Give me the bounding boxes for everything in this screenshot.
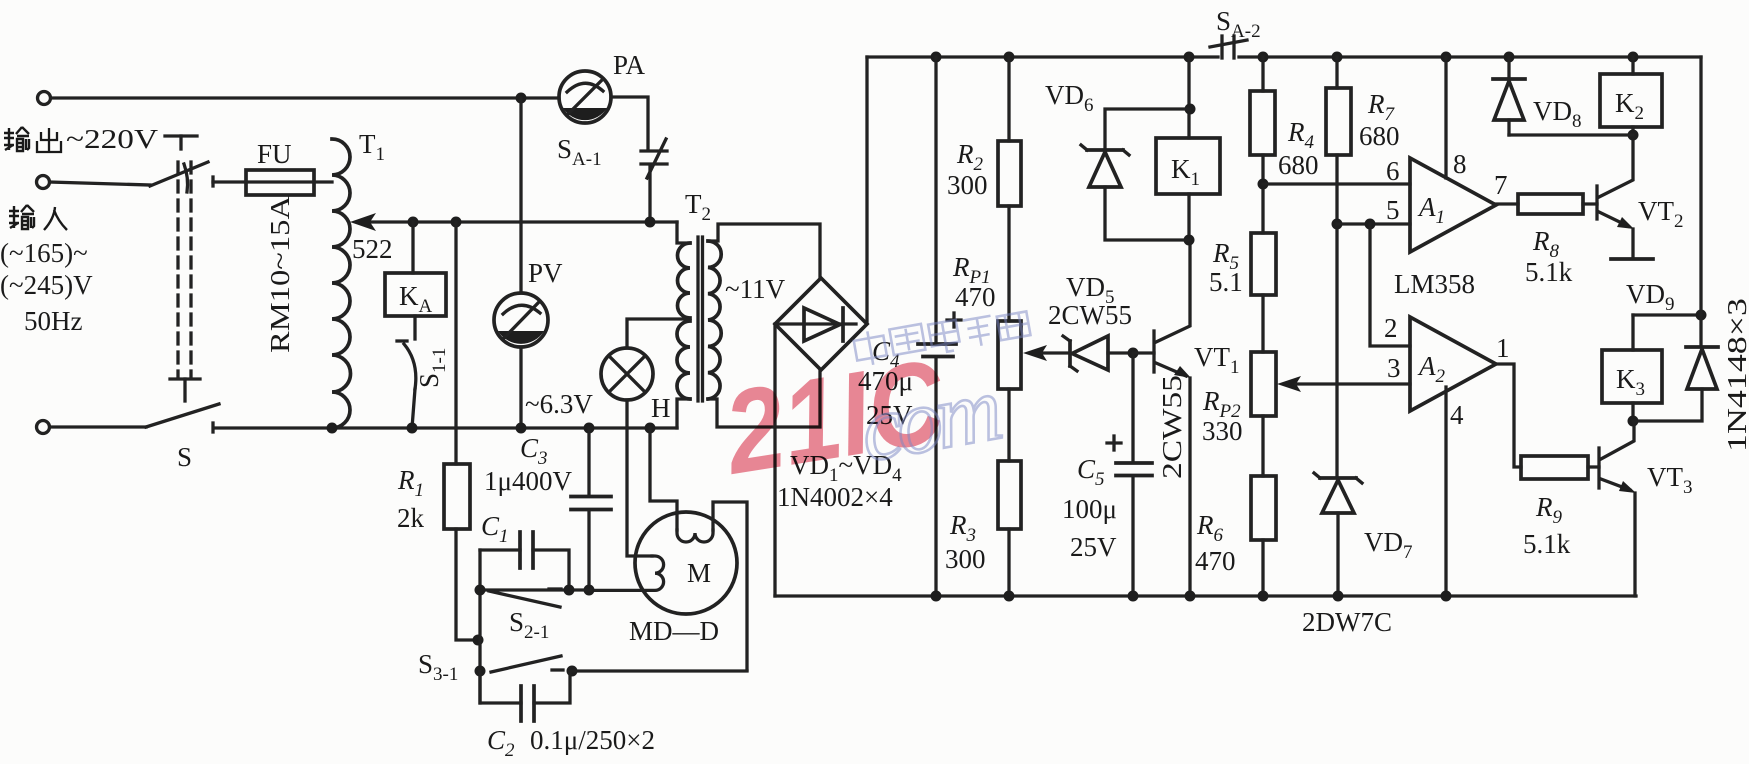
svg-text:5.1: 5.1	[1209, 267, 1243, 297]
diode VD8 (parallel with K2)	[1504, 52, 1515, 63]
wire T2 secondary bottom to bridge	[708, 371, 820, 427]
wire right rail from top bus	[1699, 57, 1702, 346]
terminal lower	[37, 421, 50, 434]
svg-text:300: 300	[945, 544, 986, 574]
wire input to switch	[50, 182, 150, 185]
node R1 to S-chain junction	[473, 635, 484, 646]
wire to A1 pin 5	[1337, 222, 1410, 225]
svg-text:50Hz: 50Hz	[24, 306, 82, 336]
relay coil K1	[1184, 52, 1195, 63]
potentiometer RP1	[998, 321, 1021, 389]
wire lower input to switch	[50, 425, 146, 428]
switch SA-1 contact	[641, 149, 667, 152]
op-amp A2	[1410, 317, 1496, 411]
wire lamp down to motor winding	[627, 400, 652, 556]
svg-text:5.1k: 5.1k	[1523, 529, 1571, 559]
zener diode VD5	[1068, 341, 1072, 366]
wire DC top bus	[867, 55, 1218, 58]
switch S upper pole	[150, 162, 208, 186]
potentiometer RP2	[1251, 352, 1276, 416]
svg-text:330: 330	[1202, 416, 1243, 446]
capacitor C4	[931, 52, 942, 63]
wire S2-1 node to motor	[480, 588, 591, 591]
svg-text:5: 5	[1386, 195, 1400, 225]
svg-text:MD—D: MD—D	[629, 616, 719, 646]
wire bus to motor top winding	[650, 428, 677, 530]
svg-text:RM10~15A: RM10~15A	[265, 195, 295, 353]
diode 1N4148 (parallel with K3)	[1686, 345, 1718, 349]
wire tap bus with arrow into T1	[370, 220, 677, 223]
wire switch to fuse	[213, 180, 246, 183]
switch S3-1	[491, 656, 561, 672]
switch S gang dashed link	[176, 162, 179, 377]
transformer T2 core	[696, 237, 699, 401]
ammeter PA	[559, 71, 611, 123]
svg-text:2: 2	[1384, 313, 1398, 343]
capacitor C2 (parallel with S3-1)	[480, 671, 521, 703]
svg-text:(~165)~: (~165)~	[0, 238, 88, 268]
resistor R3	[1007, 389, 1010, 461]
svg-text:~6.3V: ~6.3V	[525, 389, 593, 419]
wire to A2 pin 2	[1370, 224, 1410, 346]
switch S lower pole	[146, 404, 219, 427]
switch SA-2	[1220, 36, 1223, 58]
svg-text:680: 680	[1359, 121, 1400, 151]
svg-text:300: 300	[947, 170, 988, 200]
svg-text:PA: PA	[613, 50, 646, 80]
svg-text:FU: FU	[257, 139, 292, 169]
node SA-1 bottom junction	[645, 217, 656, 228]
transformer T2 primary coil upper	[677, 243, 690, 318]
relay coil K2	[1628, 52, 1639, 63]
svg-text:2DW7C: 2DW7C	[1302, 607, 1392, 637]
node VT1 base junction	[1128, 348, 1139, 359]
svg-text:2k: 2k	[397, 503, 425, 533]
node S2-1 left junction	[475, 585, 486, 596]
resistor R2	[1004, 52, 1015, 63]
fuse FU	[246, 180, 332, 183]
lamp H	[601, 348, 653, 400]
svg-text:S: S	[177, 442, 192, 472]
node S3-1 left junction	[475, 666, 486, 677]
wire A1 pin 8 to bus	[1441, 52, 1452, 63]
node R4 bottom / pin6 junction	[1258, 179, 1269, 190]
svg-text:25V: 25V	[1070, 532, 1117, 562]
motor M circle	[635, 512, 737, 614]
resistor R7	[1332, 52, 1343, 63]
wire A2 pin 4 to bottom bus	[1444, 387, 1447, 596]
svg-text:680: 680	[1278, 150, 1319, 180]
svg-text:470: 470	[1195, 546, 1236, 576]
voltmeter PV	[516, 93, 527, 104]
svg-text:1N4148×3: 1N4148×3	[1722, 298, 1749, 452]
capacitor C3	[584, 423, 595, 434]
wire bridge minus to bottom bus	[773, 324, 776, 596]
svg-text:H: H	[651, 393, 671, 423]
svg-text:522: 522	[352, 234, 393, 264]
node A2 pin2 branch junction	[1365, 219, 1376, 230]
transistor VT1	[1133, 351, 1154, 354]
resistor R6	[1251, 476, 1276, 540]
svg-text:~220V: ~220V	[66, 124, 159, 154]
switch S2-1	[489, 591, 560, 607]
svg-text:M: M	[687, 558, 711, 588]
wire bridge plus to top bus	[865, 57, 868, 322]
resistor R1	[454, 222, 457, 464]
node C3 bottom junction	[584, 585, 595, 596]
svg-text:(~245)V: (~245)V	[0, 270, 93, 300]
resistor R8	[1496, 202, 1518, 205]
svg-text:8: 8	[1453, 149, 1467, 179]
relay coil K3	[1602, 350, 1662, 403]
terminal middle (input line)	[37, 176, 50, 189]
svg-text:~11V: ~11V	[725, 274, 786, 304]
transformer T2 primary coil lower	[677, 321, 690, 399]
node KA branch junction	[408, 217, 419, 228]
node S3-1 right junction	[567, 666, 578, 677]
svg-text:1: 1	[1496, 333, 1510, 363]
wire to A1 pin 6	[1263, 182, 1410, 185]
wire T2 primary tap to lamp	[627, 319, 689, 348]
svg-text:2CW55: 2CW55	[1048, 300, 1132, 330]
svg-text:0.1μ/250×2: 0.1μ/250×2	[530, 725, 655, 755]
svg-text:LM358: LM358	[1394, 269, 1475, 299]
node T1 bottom junction	[327, 423, 338, 434]
watermark 21IC	[715, 335, 954, 500]
wire left chain vertical	[478, 550, 481, 703]
transformer T2 primary top lead	[677, 222, 690, 243]
label 输入 50Hz block	[9, 205, 34, 229]
op-amp A1	[1410, 158, 1496, 252]
node R7 bottom / pin5 junction	[1332, 219, 1343, 230]
wire 220V bottom bus	[215, 426, 677, 429]
switch S1-1	[413, 316, 416, 339]
resistor R5	[1251, 233, 1276, 295]
transistor VT3	[1588, 465, 1599, 468]
zener diode VD7	[1320, 476, 1356, 480]
wire A2 output pin 1 to R9	[1496, 364, 1521, 467]
node R1 branch junction	[451, 217, 462, 228]
wire S3-1 to motor right lead	[572, 669, 747, 672]
terminal upper (output line)	[38, 92, 51, 105]
svg-text:5.1k: 5.1k	[1525, 257, 1573, 287]
svg-text:100μ: 100μ	[1062, 494, 1117, 524]
svg-text:PV: PV	[528, 258, 563, 288]
transistor VT2	[1595, 186, 1598, 219]
capacitor C5	[1131, 353, 1134, 462]
node S1-1 bottom junction	[407, 423, 418, 434]
svg-text:6: 6	[1386, 156, 1400, 186]
node T2 primary bottom junction	[645, 423, 656, 434]
motor left winding	[591, 556, 664, 590]
svg-text:4: 4	[1450, 400, 1464, 430]
wire T2 secondary top to bridge	[708, 224, 820, 278]
motor top winding	[677, 530, 713, 542]
wire VD9 node to right rail	[1633, 313, 1701, 316]
wire T2 primary bottom lead	[677, 399, 690, 428]
relay coil KA	[411, 222, 414, 273]
svg-text:3: 3	[1387, 353, 1401, 383]
transformer T1 (autotransformer coil)	[332, 139, 351, 428]
svg-text:7: 7	[1494, 170, 1508, 200]
node S2-1 right junction	[564, 585, 575, 596]
svg-text:470: 470	[955, 282, 996, 312]
wire top 220V rail	[51, 96, 559, 99]
transformer T2 secondary coil	[708, 241, 721, 399]
resistor R9	[1521, 456, 1588, 479]
wire PA right to SA-1	[611, 97, 648, 148]
watermark 中国电子网 com	[845, 304, 1051, 482]
wire DC bottom bus	[775, 594, 1636, 597]
bridge rectifier VD1~VD4	[775, 278, 867, 370]
wire RP2 wiper to A2 pin 3	[1296, 382, 1410, 385]
svg-text:1μ400V: 1μ400V	[484, 466, 572, 496]
diode VD6 (parallel with K1)	[1105, 109, 1189, 150]
capacitor C1 (parallel with S2-1)	[480, 548, 520, 551]
resistor R4	[1258, 52, 1269, 63]
svg-text:2CW55: 2CW55	[1157, 375, 1187, 479]
